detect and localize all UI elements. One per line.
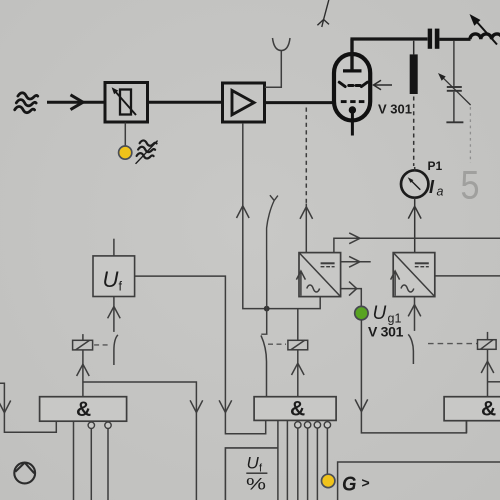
svg-text:V 301: V 301 [378,102,412,117]
tube V301 [334,39,370,136]
AND gate D3 [444,397,500,421]
trimmer capacitor [442,41,471,123]
svg-text:%: % [246,475,266,494]
screen stub arrow [341,256,371,267]
meter transducer box [225,448,278,500]
Uf lower wire and switch [108,297,121,366]
svg-text:5: 5 [461,164,480,208]
mid switch S2 [261,335,267,396]
anode choke R [410,41,418,166]
Uf box [93,239,135,297]
svg-text:P1: P1 [428,159,443,173]
svg-text:>: > [362,475,370,491]
wire A1 to amplifier [147,101,224,104]
RF input wave symbol [15,92,38,114]
mid switch upper blade [267,195,278,260]
AND gate D1 [40,397,127,422]
AND gate D2 [254,397,336,421]
green node Ug1 [355,306,368,319]
left interlock wire [0,383,56,432]
switch-relay dashed link right [428,343,477,345]
power supply U2 [391,253,435,297]
blower symbol [14,463,35,484]
wire amplifier to tube [265,101,336,104]
K1 wire to gate [77,350,203,500]
relay coil K2 [288,309,308,397]
svg-text:G: G [342,474,357,496]
stub to yellow node [124,123,126,147]
wire input line [47,101,106,104]
node junction dot [264,306,270,312]
svg-text:&: & [76,398,91,421]
meter P1 [401,170,428,197]
green wire down [355,320,466,433]
D2 bottom connections [278,420,331,500]
meter top lead [414,167,416,171]
D1 outputs [74,421,112,500]
meter bottom lead [408,198,421,253]
U2 lower wire and switch [408,297,421,364]
svg-text:&: & [481,398,496,421]
svg-text:&: & [290,398,305,421]
antenna arrow top [317,0,329,27]
wire capacitor to coil [439,38,470,41]
crossed wave symbol [135,138,157,166]
grid arrow [374,80,393,90]
capacitor C1 plates [428,29,440,49]
supply U2 output right [435,275,500,277]
antenna probe [265,38,290,87]
svg-text:V 301: V 301 [368,324,404,340]
anode top wire [352,39,428,70]
attenuator box A1 [105,83,148,123]
variable inductor L1 [470,14,500,45]
svg-text:f: f [119,280,123,294]
D3 output [466,421,468,433]
dashed link K1 [94,344,111,346]
amplifier V1 [223,83,265,122]
relay coil K3 [478,332,500,397]
wire amp down to node [237,123,321,309]
yellow node [119,146,132,159]
Uf output wire [135,276,266,434]
svg-text:U: U [247,454,260,473]
grey dashed leader [469,107,471,163]
label Ug1 [373,303,402,326]
arrow input [71,95,84,110]
dashed link S2-K2 [268,343,286,345]
svg-text:a: a [437,185,444,199]
relay coil K1 [73,334,93,350]
svg-text:U: U [373,303,387,324]
power supply U1 [296,253,340,297]
mid wire to switch [266,260,268,334]
supply rail right arrow [334,233,500,253]
drain wire right [338,462,500,500]
label Ia [429,177,444,199]
svg-text:U: U [103,267,119,292]
grid supply wire [341,282,362,306]
dashed drive line [300,108,313,253]
yellow node G [322,474,335,487]
